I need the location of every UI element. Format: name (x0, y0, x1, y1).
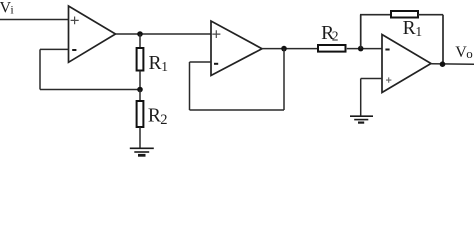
wire feedback top to R1 (360, 14, 391, 16)
wire Vi input to U1 + (0, 19, 69, 21)
svg-text:1: 1 (161, 59, 168, 74)
wire R1 to right vertical (418, 14, 443, 16)
wire U3 + to ground (361, 78, 382, 80)
pin + U1 (71, 17, 79, 25)
wire R2 top lead (139, 90, 141, 102)
wire U3 output to Vo (431, 63, 474, 65)
op-amp U3 (382, 35, 431, 93)
node junction output / feedback (440, 61, 446, 67)
svg-text:2: 2 (160, 112, 167, 128)
wire feedback left vertical up (360, 15, 362, 49)
ground GND1 (130, 148, 154, 155)
svg-text:R: R (148, 105, 161, 126)
svg-text:o: o (466, 46, 473, 61)
wire R2 to U3 - input (347, 48, 382, 50)
pin - U3 (385, 49, 389, 51)
wire feedback right vertical down (442, 15, 444, 64)
wire U2 feedback bottom horizontal (190, 109, 285, 111)
resistor R1 feedback of U3 (391, 11, 422, 39)
resistor R2 (137, 101, 168, 128)
wire ground vertical (360, 79, 362, 117)
ground GND2 (350, 116, 373, 122)
pin + U3 (386, 77, 391, 82)
wire R1 bottom lead (139, 71, 141, 90)
resistor R1 (137, 48, 168, 74)
node junction R2 / R1 / U3 - (358, 46, 364, 52)
wire U2 - input (190, 61, 212, 63)
wire R1 top lead (139, 34, 141, 48)
resistor R2 input of U3 (318, 23, 346, 51)
pin + U2 (212, 30, 220, 38)
wire U1 output to U2 + (116, 33, 212, 35)
node Vo label (455, 44, 473, 61)
wire U2 output to R2 (262, 48, 318, 50)
svg-text:1: 1 (415, 24, 422, 39)
svg-text:R: R (403, 18, 416, 39)
node junction R1 / R2 / feedback (137, 87, 143, 93)
pin - U1 (72, 49, 76, 51)
svg-text:R: R (149, 53, 162, 74)
wire U1 - input from feedback (40, 48, 69, 50)
wire U2 feedback right vertical (283, 49, 285, 110)
wire U2 feedback left vertical (189, 62, 191, 110)
svg-text:2: 2 (332, 29, 339, 44)
wire feedback bottom horizontal (40, 89, 140, 91)
op-amp U1 (69, 6, 116, 62)
node Vi label (0, 0, 14, 17)
op-amp U2 (211, 21, 262, 76)
wire R2 bottom lead (139, 127, 141, 148)
pin - U2 (214, 63, 218, 65)
wire feedback left vertical (39, 49, 41, 89)
node junction U1 output / R1 (137, 31, 143, 37)
node junction U2 output / feedback (281, 46, 287, 52)
